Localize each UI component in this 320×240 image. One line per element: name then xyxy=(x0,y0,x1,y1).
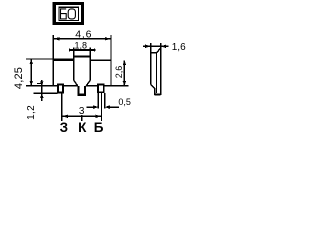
svg-text:1,2: 1,2 xyxy=(26,105,37,120)
svg-text:К: К xyxy=(78,120,87,135)
svg-text:Б: Б xyxy=(94,120,104,135)
svg-text:2,6: 2,6 xyxy=(114,66,124,79)
svg-text:З: З xyxy=(60,120,68,135)
svg-text:0,5: 0,5 xyxy=(118,97,131,107)
svg-text:3: 3 xyxy=(79,106,85,117)
svg-text:4,25: 4,25 xyxy=(13,67,25,89)
svg-text:4,6: 4,6 xyxy=(75,29,92,41)
svg-text:1,8: 1,8 xyxy=(75,40,88,50)
svg-text:1,6: 1,6 xyxy=(172,42,186,53)
